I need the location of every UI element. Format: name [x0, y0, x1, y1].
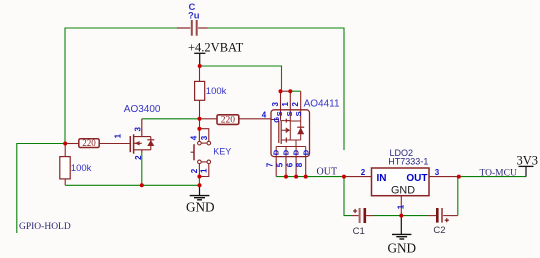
junction AO3400 source at bus: [140, 183, 144, 187]
wire C2 up to OUT node: [457, 177, 459, 216]
svg-text:3: 3: [435, 168, 440, 177]
svg-text:AO3400: AO3400: [124, 104, 161, 115]
svg-text:2: 2: [291, 102, 300, 107]
wire KEY top stub: [199, 119, 201, 129]
wire left branch to GPIO-HOLD: [17, 144, 65, 234]
wire left vertical rail: [64, 28, 66, 144]
svg-text:220: 220: [82, 138, 96, 148]
svg-text:G: G: [272, 117, 281, 123]
svg-text:220: 220: [221, 116, 236, 126]
junction KEY bottom: [197, 175, 201, 179]
resistor 100k left pins: [64, 144, 66, 186]
svg-text:3: 3: [134, 127, 143, 132]
svg-text:TO-MCU: TO-MCU: [480, 168, 517, 178]
svg-text:+4.2VBAT: +4.2VBAT: [188, 40, 244, 54]
transistor U AO4411: [266, 91, 340, 176]
svg-text:IN: IN: [377, 173, 387, 184]
svg-text:C1: C1: [353, 226, 365, 237]
resistor R 100k top: [195, 81, 227, 100]
junction AO4411 source pin1: [288, 89, 292, 93]
junction AO4411 drain pin6: [294, 175, 298, 179]
svg-text:GND: GND: [391, 184, 415, 196]
svg-text:D: D: [271, 149, 280, 155]
svg-text:S: S: [294, 111, 303, 116]
svg-text:KEY: KEY: [213, 146, 231, 156]
svg-text:AO4411: AO4411: [304, 99, 340, 110]
svg-text:C2: C2: [433, 225, 445, 236]
svg-text:?u: ?u: [188, 11, 200, 22]
wire right vertical from top corner (dangling): [343, 28, 345, 151]
junction OUT / C1 branch: [342, 175, 346, 179]
capacitor C2: [428, 208, 458, 236]
resistor 100k left: [60, 157, 92, 179]
junction GND / C caps: [399, 214, 403, 218]
junction AO4411 source pin3: [279, 89, 283, 93]
wire GND junction to C2: [401, 215, 428, 217]
svg-text:5: 5: [275, 162, 284, 167]
wire bottom ground bus: [65, 184, 199, 186]
capacitor C: [177, 2, 208, 36]
svg-text:D: D: [302, 149, 311, 155]
junction ground bus at GND: [198, 183, 202, 187]
wire OUT bus: [276, 176, 344, 178]
wire left junction to 220: [65, 143, 79, 145]
svg-text:4: 4: [262, 110, 267, 119]
svg-text:6: 6: [285, 162, 294, 167]
svg-text:3V3: 3V3: [517, 154, 539, 168]
svg-text:D: D: [281, 149, 290, 155]
svg-text:8: 8: [295, 162, 304, 167]
junction KEY top: [197, 127, 201, 131]
svg-text:7: 7: [266, 162, 275, 167]
wire horizontal gate net of AO4411: [142, 118, 200, 120]
capacitor C1: [352, 208, 374, 237]
junction AO4411 drain pin5: [284, 175, 288, 179]
resistor R 100k top pins: [199, 66, 201, 81]
svg-text:100k: 100k: [71, 163, 92, 174]
wire from +4.2VBAT junction to AO4411 sources: [200, 66, 282, 91]
svg-text:3: 3: [200, 135, 209, 140]
junction node dots: [63, 64, 461, 218]
junction +4.2VBAT: [198, 64, 202, 68]
transistor Q AO3400: [124, 104, 161, 186]
svg-text:100k: 100k: [206, 86, 227, 97]
wire AO4411 source bus: [281, 90, 291, 92]
junction left rail / gate net: [63, 142, 67, 146]
junction 100k / gate wire: [198, 117, 202, 121]
svg-text:GPIO-HOLD: GPIO-HOLD: [19, 222, 71, 232]
svg-text:1: 1: [397, 204, 406, 209]
svg-text:OUT: OUT: [406, 173, 427, 184]
wire KEY bottom to ground bus: [198, 177, 200, 186]
svg-text:2: 2: [190, 168, 199, 173]
svg-text:2: 2: [361, 168, 366, 177]
wire C1 to GND junction: [374, 215, 401, 217]
svg-text:4: 4: [190, 135, 199, 140]
regulator LDO2 HT7333-1: [344, 148, 459, 216]
svg-text:1: 1: [199, 168, 208, 173]
svg-text:S: S: [275, 111, 284, 116]
svg-text:OUT: OUT: [317, 167, 338, 178]
power +4.2VBAT: [188, 40, 244, 66]
svg-text:1: 1: [113, 133, 122, 138]
svg-text:GND: GND: [186, 199, 215, 214]
ground GND left: [186, 185, 215, 214]
junction AO4411 drain pin8: [304, 175, 308, 179]
svg-text:D: D: [292, 149, 301, 155]
wire 220 to AO3400 gate: [99, 143, 130, 145]
wire top horizontal from left rail to capacitor C: [65, 27, 177, 29]
wire regulator output to 3V3: [459, 176, 526, 178]
wire OUT junction down to C1: [344, 177, 352, 216]
svg-text:GND: GND: [388, 240, 417, 255]
ground GND right: [388, 216, 417, 256]
svg-text:S: S: [285, 111, 294, 116]
svg-text:2: 2: [134, 155, 143, 160]
wire capacitor C right side to corner: [207, 27, 344, 29]
junction regulator out / C2 branch: [457, 175, 461, 179]
switch KEY: [190, 129, 232, 177]
svg-text:3: 3: [271, 102, 280, 107]
resistor 220 (right): [217, 115, 239, 126]
power 3V3: [517, 154, 539, 177]
svg-text:HT7333-1: HT7333-1: [388, 157, 428, 167]
svg-text:1: 1: [281, 102, 290, 107]
resistor 220 (left): [79, 138, 99, 148]
